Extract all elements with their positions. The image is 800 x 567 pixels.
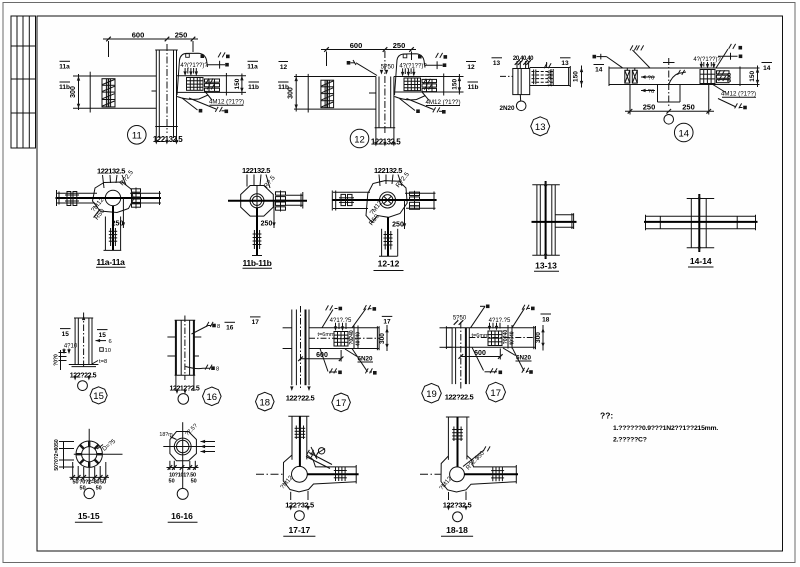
section 13-13 beam axis horizontal bbox=[532, 221, 577, 223]
detail 13 weld mark above beam bbox=[544, 63, 551, 68]
detail 11 end-plate curve outline bbox=[177, 53, 208, 99]
svg-text:250: 250 bbox=[112, 221, 124, 228]
detail 17 beam flange stubs left bbox=[283, 328, 292, 349]
detail 17 bubble octagon 17 bbox=[332, 393, 351, 412]
detail 11 section mark 11b left bbox=[59, 82, 70, 91]
svg-text:11b: 11b bbox=[59, 84, 70, 91]
svg-text:50?0?2=8050: 50?0?2=8050 bbox=[54, 439, 60, 470]
section 13-13 column flange caps bbox=[532, 185, 560, 255]
section 14-14 beam axis bbox=[644, 221, 758, 223]
svg-text:12-12: 12-12 bbox=[378, 259, 400, 269]
svg-text:150: 150 bbox=[234, 78, 241, 89]
svg-text:16-16: 16-16 bbox=[171, 511, 193, 521]
svg-text:1?300: 1?300 bbox=[548, 70, 554, 86]
svg-text:14: 14 bbox=[595, 67, 603, 74]
detail 15 section mark 15 left bbox=[60, 329, 71, 338]
svg-text:15: 15 bbox=[93, 391, 104, 402]
svg-text:8: 8 bbox=[217, 324, 220, 330]
detail 12 anchor text 4M12 (?1??) bbox=[422, 92, 461, 106]
section 11b-11b bolt on lower web bbox=[252, 230, 262, 256]
detail 14 centre line and level mark bbox=[668, 58, 670, 108]
svg-text:14: 14 bbox=[678, 128, 689, 139]
svg-text:t=6mm: t=6mm bbox=[472, 333, 489, 339]
section 17-17 end cap bbox=[355, 465, 357, 484]
svg-text:11a: 11a bbox=[59, 64, 70, 71]
detail 12 section mark 12 left bbox=[279, 62, 289, 71]
detail 13 section mark 13 right bbox=[560, 58, 571, 67]
detail 14 section mark 14 left bbox=[593, 54, 623, 74]
detail 13 leader to bubble bbox=[519, 95, 521, 101]
detail 12 section mark 11b left bbox=[278, 82, 289, 91]
section 11b-11b lower web bbox=[256, 208, 258, 256]
svg-text:12: 12 bbox=[280, 64, 288, 71]
svg-text:300: 300 bbox=[70, 86, 77, 98]
svg-text:??:: ??: bbox=[600, 411, 613, 421]
detail 14 bottom-right leader bbox=[718, 99, 743, 108]
detail 11 section mark 11b right bbox=[248, 82, 259, 91]
title strip table top-left bbox=[11, 16, 36, 148]
detail 11 top dimension line 600/250 bbox=[103, 39, 198, 57]
svg-text:122132.5: 122132.5 bbox=[242, 166, 270, 175]
svg-text:16: 16 bbox=[207, 392, 218, 403]
svg-text:17: 17 bbox=[336, 398, 347, 409]
detail 14 section mark 14 right bbox=[762, 63, 773, 72]
detail 19 dim 600 bbox=[461, 349, 501, 360]
detail 13 section mark 13 left bbox=[492, 58, 503, 67]
detail 15 weld arrow 6 right bbox=[96, 339, 112, 345]
detail 19 bubble octagon 19 bbox=[422, 383, 442, 403]
detail 11 beam depth dim 300 bbox=[73, 74, 90, 110]
detail 11 column web stub left bbox=[152, 90, 157, 92]
detail 14 anchor text 4M12 (?1??) bbox=[712, 84, 756, 98]
section 16-16 pipe circles bbox=[174, 438, 191, 455]
detail 19 text 6N20 bbox=[503, 348, 532, 361]
detail 11 bubble circle 11 bbox=[128, 126, 147, 145]
detail 17 bottom leaders bbox=[320, 349, 337, 373]
svg-text:13: 13 bbox=[535, 122, 546, 133]
svg-text:122132.5: 122132.5 bbox=[374, 166, 402, 175]
section 12-12 pipe circles bbox=[380, 192, 396, 208]
detail 12 right depth dim 150 bbox=[458, 74, 460, 95]
svg-text:8: 8 bbox=[216, 367, 219, 373]
section 11a-11a horizontal beam axis bbox=[56, 197, 162, 199]
detail 14 right bolt grid bbox=[700, 70, 715, 84]
detail 16 upper leader ?8 bbox=[192, 326, 212, 335]
svg-text:18-18: 18-18 bbox=[446, 525, 468, 535]
svg-text:11b-11b: 11b-11b bbox=[242, 258, 271, 268]
detail 12 stiffener hatch block bbox=[321, 80, 334, 108]
svg-text:11b: 11b bbox=[248, 84, 259, 91]
section 14-14 column caps bbox=[687, 199, 715, 248]
detail 16 bubble octagon 16 bbox=[203, 387, 222, 406]
svg-text:2.?????C?: 2.?????C? bbox=[613, 437, 647, 444]
detail 15 bubble octagon 15 bbox=[90, 387, 107, 404]
section 15-15 ring column with ribs bbox=[76, 441, 102, 467]
detail 12 column web stub left bbox=[369, 92, 376, 94]
detail 19 beam outline bbox=[446, 326, 535, 349]
svg-text:150: 150 bbox=[573, 71, 580, 82]
detail 19 beam flange stubs left bbox=[440, 328, 453, 348]
svg-text:122132.5: 122132.5 bbox=[97, 167, 125, 176]
section 14-14 column web axis bbox=[698, 194, 700, 252]
svg-text:250: 250 bbox=[643, 103, 656, 112]
section 11b-11b pipe circles bbox=[250, 194, 264, 208]
detail 16 column centre line bbox=[184, 316, 186, 381]
detail 16 lower leader ?8 bbox=[186, 367, 211, 369]
svg-text:50: 50 bbox=[169, 479, 175, 485]
section 17-17 pipe circle bbox=[292, 466, 308, 482]
section 12-12 lower web bbox=[387, 217, 389, 256]
svg-text:122?22.5: 122?22.5 bbox=[286, 393, 315, 402]
detail 11 bolt rows right of grid bbox=[205, 79, 220, 91]
svg-text:17-17: 17-17 bbox=[289, 525, 311, 535]
section 11a-11a lower beam web vertical bbox=[112, 206, 114, 251]
section 17-17 beam axis bbox=[307, 473, 359, 475]
svg-text:250: 250 bbox=[261, 221, 273, 228]
detail 17 beam outline bbox=[309, 326, 379, 350]
svg-text:300: 300 bbox=[379, 333, 386, 344]
detail 16 flange stubs bbox=[167, 337, 201, 356]
detail 11 top leader squares and weld marks bbox=[186, 54, 190, 58]
detail 12 column below beam bbox=[375, 77, 396, 128]
detail 15 base plate bbox=[69, 365, 99, 367]
section 16-16 octagon plate bbox=[170, 432, 197, 461]
svg-text:600: 600 bbox=[350, 41, 363, 50]
detail 17 top leaders bbox=[322, 309, 338, 328]
svg-text:300: 300 bbox=[288, 87, 295, 99]
svg-text:6: 6 bbox=[109, 339, 112, 345]
detail 11 left beam outline bbox=[80, 72, 156, 113]
detail 14 leader curve centre bbox=[669, 72, 686, 85]
svg-text:16: 16 bbox=[226, 325, 234, 332]
svg-text:17: 17 bbox=[252, 319, 260, 326]
svg-text:50: 50 bbox=[96, 486, 102, 492]
detail 12 right beam outline bbox=[394, 74, 464, 96]
detail 17 dim 600 bbox=[301, 350, 342, 362]
detail 17 column shaft bbox=[292, 310, 309, 386]
section 13-13 beam rectangle bbox=[555, 213, 573, 229]
detail 13 bolt shank dashed rows bbox=[532, 72, 555, 83]
section 17-17 bolt on vertical bbox=[295, 426, 306, 440]
section 18-18 leader arrow bbox=[463, 450, 484, 467]
svg-text:122?32.5: 122?32.5 bbox=[285, 501, 314, 510]
svg-text:17: 17 bbox=[383, 319, 391, 326]
detail 15 text t=8 with leader bbox=[92, 359, 107, 365]
section 17-17 vertical member bbox=[288, 416, 309, 460]
detail 13 centre line left bbox=[500, 75, 513, 77]
svg-text:5?50: 5?50 bbox=[453, 315, 467, 321]
svg-text:50: 50 bbox=[191, 479, 197, 485]
detail 12 bolt rows right of grid bbox=[422, 79, 437, 91]
section 11a-11a right bolt stack bbox=[132, 188, 141, 209]
section 11a-11a gusset plate outline bbox=[93, 182, 134, 218]
detail 13 column member bbox=[513, 69, 530, 95]
detail 12 bubble circle 12 bbox=[350, 129, 369, 148]
section 11b-11b octagon plate bbox=[241, 186, 274, 217]
section 18-18 bolt group on arm bbox=[491, 467, 504, 481]
section 14-14 beam outline bbox=[646, 215, 756, 230]
svg-text:13: 13 bbox=[561, 60, 569, 67]
section 11a-11a right beam flange lines bbox=[130, 191, 161, 205]
section 12-12 right beam flanges bbox=[405, 192, 436, 211]
detail 14 bubble octagon 14 bbox=[674, 123, 693, 142]
section 18-18 gusset plate outline bbox=[441, 456, 516, 493]
svg-text:11a: 11a bbox=[247, 64, 258, 71]
section 18-18 bolt on vertical bbox=[452, 427, 463, 442]
section 18-18 beam axis bbox=[464, 473, 518, 475]
svg-text:6N20: 6N20 bbox=[357, 355, 373, 362]
section 18-18 pipe circle bbox=[450, 467, 465, 482]
detail 16 column shaft bbox=[175, 320, 196, 375]
detail 13 depth dim 150 bbox=[581, 66, 583, 88]
detail 17 column centre line bbox=[300, 306, 302, 390]
svg-text:12: 12 bbox=[354, 134, 365, 145]
detail 15 column centre line bbox=[83, 313, 85, 369]
detail 11 bottom leader squares bbox=[182, 98, 225, 111]
detail 14 weld arrow ?6 upper bbox=[641, 75, 655, 81]
svg-text:?0?40: ?0?40 bbox=[503, 330, 509, 345]
detail 19 bottom leaders bbox=[472, 347, 497, 372]
svg-text:17: 17 bbox=[490, 388, 501, 399]
svg-text:300: 300 bbox=[535, 332, 542, 343]
detail 12 section mark 11b right bbox=[468, 82, 479, 91]
detail 18 bubble octagon 18 bbox=[256, 392, 275, 411]
svg-text:19: 19 bbox=[426, 389, 437, 400]
svg-text:50: 50 bbox=[100, 479, 106, 485]
detail 12 bolt grid block bbox=[404, 78, 421, 91]
svg-text:300: 300 bbox=[727, 73, 733, 82]
detail 11 bolt leader lines w arrows bbox=[185, 68, 196, 74]
detail 14 small circle below bbox=[664, 115, 674, 125]
svg-text:20,40,40: 20,40,40 bbox=[513, 56, 534, 62]
svg-text:4?1?.?5: 4?1?.?5 bbox=[330, 318, 352, 324]
section 16-16 small circle bbox=[182, 461, 184, 488]
section 11a-11a dim 250 bbox=[122, 198, 124, 228]
section 15-15 crosshair axes bbox=[74, 429, 123, 484]
detail 17 text 6N20 bbox=[345, 349, 373, 362]
detail 12 beam depth dim 300 bbox=[294, 74, 308, 112]
svg-text:4M12 (?1??): 4M12 (?1??) bbox=[721, 91, 756, 98]
detail 19 spacing dim ladders bbox=[508, 325, 512, 349]
section 12-12 left beam flanges bbox=[332, 191, 370, 211]
svg-text:250: 250 bbox=[392, 222, 404, 229]
detail 19 column shaft below beam bbox=[452, 328, 469, 384]
svg-text:?6: ?6 bbox=[648, 89, 654, 95]
detail 11 stiffener hatch block bbox=[102, 79, 115, 107]
section 11b-11b vertical axis upper bbox=[256, 186, 258, 216]
svg-text:122?32.5: 122?32.5 bbox=[443, 501, 472, 510]
svg-text:11b: 11b bbox=[468, 84, 479, 91]
section 11b-11b right beam flanges bbox=[286, 192, 303, 209]
svg-text:14-14: 14-14 bbox=[690, 256, 712, 266]
detail 19 top right leaders bbox=[512, 308, 530, 328]
section 12-12 dim 250 bbox=[404, 200, 406, 229]
detail 17 section mark 17 top right bbox=[382, 316, 393, 325]
detail 14 beam outline bbox=[609, 67, 740, 87]
detail 14 bolt rows beside grid bbox=[717, 71, 730, 83]
detail 12 leader square to column top bbox=[347, 61, 351, 65]
section 11b-11b right bolt stack bbox=[276, 191, 286, 212]
svg-text:1.??????0.9???1N2??1??215mm.: 1.??????0.9???1N2??1??215mm. bbox=[613, 425, 718, 432]
svg-text:t=8: t=8 bbox=[99, 359, 107, 365]
svg-text:250: 250 bbox=[393, 41, 406, 50]
svg-text:18: 18 bbox=[260, 397, 271, 408]
section 15-15 small circle bbox=[84, 488, 94, 498]
svg-text:15: 15 bbox=[62, 331, 70, 338]
detail 14 right depth dim 150 bbox=[740, 66, 760, 88]
detail 12 bottom leader squares bbox=[400, 99, 443, 112]
svg-text:t=6mm: t=6mm bbox=[318, 332, 335, 338]
section 13-13 column web axis bbox=[545, 181, 547, 259]
svg-text:11: 11 bbox=[132, 131, 142, 142]
section 12-12 gusset plate outline bbox=[366, 181, 407, 223]
svg-text:?6: ?6 bbox=[648, 76, 654, 82]
detail 11 column centre line bbox=[166, 44, 168, 133]
section 16-16 axes bbox=[163, 422, 211, 461]
detail 19 bolt grid on beam bbox=[488, 331, 502, 346]
detail 14 weld arrow ?6 lower bbox=[641, 89, 655, 95]
svg-text:4?10: 4?10 bbox=[64, 344, 78, 350]
svg-text:250: 250 bbox=[175, 31, 188, 40]
detail 13 small circle leader bbox=[516, 101, 526, 111]
section 16-16 bottom extension lines bbox=[167, 461, 199, 470]
section 17-17 small circle bbox=[295, 511, 305, 521]
detail 15 left anchor dims bbox=[59, 350, 67, 370]
detail 14 weld marks left with leader bbox=[630, 45, 637, 50]
section 16-16 weld arrows right bbox=[201, 440, 216, 443]
svg-text:15-15: 15-15 bbox=[78, 511, 100, 521]
svg-text:11a-11a: 11a-11a bbox=[96, 257, 125, 267]
detail 12 top dimension line 600/250 bbox=[321, 50, 416, 67]
section 12-12 right bolt stack bbox=[410, 191, 420, 210]
svg-text:5?50: 5?50 bbox=[381, 64, 395, 71]
section 11b-11b dim 250 bbox=[273, 201, 275, 228]
svg-text:15: 15 bbox=[99, 332, 107, 339]
section 12-12 bolt on lower web bbox=[384, 231, 393, 250]
detail 13 beam to right bbox=[530, 66, 571, 87]
detail 11 bolt grid block bbox=[187, 78, 204, 91]
section 18-18 small circle bbox=[453, 512, 463, 522]
detail 15 text ?10 right bbox=[100, 348, 111, 354]
svg-text:4?(?1??)?: 4?(?1??)? bbox=[180, 63, 208, 69]
section 15-15 bottom extension lines bbox=[70, 462, 110, 480]
detail 17 bolt grid on beam bbox=[334, 332, 348, 347]
svg-text:150: 150 bbox=[749, 70, 756, 81]
detail 11 section mark 11a left bbox=[59, 61, 70, 70]
section 15-15 left dim ladder bbox=[59, 441, 74, 469]
detail 15 column shaft bbox=[74, 318, 93, 365]
detail 11 section mark 11a right bbox=[247, 61, 258, 70]
svg-text:40?40: 40?40 bbox=[356, 332, 362, 346]
section 12-12 left bolt assembly bbox=[339, 194, 354, 205]
section 11a-11a left beam flange lines bbox=[57, 190, 98, 206]
svg-text:?0?2=80: ?0?2=80 bbox=[79, 479, 99, 485]
section 11a-11a bolt on lower web bbox=[109, 228, 117, 246]
detail 11 column (double flange lines, caps) bbox=[155, 50, 178, 127]
svg-text:18: 18 bbox=[542, 316, 550, 323]
svg-text:122132.5: 122132.5 bbox=[153, 135, 183, 144]
svg-text:250: 250 bbox=[682, 103, 695, 112]
detail 17 depth dim 300 bbox=[386, 325, 388, 351]
detail 14 column stub below beam bbox=[658, 85, 681, 103]
section 17-17 diagonal stiffener with bolt bbox=[306, 447, 332, 469]
svg-text:40?40: 40?40 bbox=[510, 331, 516, 345]
detail 14 bottom dim 250 250 bbox=[625, 85, 714, 115]
detail 11 column line ticks into text bbox=[156, 127, 176, 142]
detail 19 top leader square bbox=[471, 306, 486, 328]
svg-text:10: 10 bbox=[105, 348, 111, 354]
detail 19 column centre line bbox=[460, 322, 462, 390]
section 11a-11a left bolt assembly bbox=[65, 192, 79, 206]
svg-text:150: 150 bbox=[452, 78, 459, 89]
svg-text:13: 13 bbox=[493, 60, 501, 67]
detail 19 bubble octagon 17 bbox=[486, 382, 506, 402]
detail 12 column centre line bbox=[384, 51, 386, 134]
svg-text:4M12 (?1??): 4M12 (?1??) bbox=[209, 99, 244, 106]
svg-text:2N20: 2N20 bbox=[499, 105, 515, 112]
svg-text:?0?0: ?0?0 bbox=[54, 354, 60, 366]
detail 15 small circle below bbox=[78, 381, 88, 391]
svg-text:?0?40: ?0?40 bbox=[349, 330, 355, 345]
section 17-17 gusset plate outline bbox=[283, 455, 356, 492]
detail 15 section mark 15 right bbox=[97, 330, 108, 339]
detail 11 right depth dim 150 bbox=[241, 74, 243, 96]
detail 11 anchor text 4M12 (?1??) bbox=[205, 92, 244, 106]
detail 12 end-plate curve outline bbox=[395, 54, 426, 100]
detail 13 bubble octagon 13 bbox=[531, 117, 550, 136]
section 17-17 bolt group on arm bbox=[334, 467, 347, 481]
svg-text:14: 14 bbox=[763, 65, 771, 72]
svg-text:600: 600 bbox=[132, 31, 145, 40]
detail 12 top leader squares bbox=[403, 54, 407, 58]
detail 19 section mark 18 top right bbox=[541, 314, 552, 323]
section 11a-11a pipe column circle bbox=[105, 190, 120, 205]
svg-text:4M12 (?1??): 4M12 (?1??) bbox=[425, 99, 460, 106]
detail 14 top-right leader squares bbox=[716, 49, 738, 68]
svg-text:50: 50 bbox=[72, 479, 78, 485]
svg-text:122?22.5: 122?22.5 bbox=[445, 393, 474, 402]
detail 13 bolt plate verticals bbox=[534, 69, 554, 85]
detail 12 left beam outline bbox=[308, 74, 376, 113]
section 11b-11b horizontal axis bbox=[228, 200, 307, 202]
detail 14 left bolt pair bbox=[625, 68, 638, 83]
detail 11 right beam outline bbox=[177, 73, 247, 96]
svg-text:12: 12 bbox=[467, 64, 475, 71]
detail 16 section mark 16 right bbox=[225, 322, 236, 331]
detail 17 spacing dim ladders bbox=[354, 326, 358, 350]
section 18-18 vertical member bbox=[446, 417, 470, 460]
detail 12 section mark 12 right bbox=[466, 62, 476, 71]
section 12-12 horizontal axis bbox=[332, 199, 437, 201]
detail 16 small circle below bbox=[178, 394, 189, 405]
detail 19 depth dim 300 bbox=[542, 325, 544, 351]
detail 16 section mark 17 far right bbox=[250, 317, 261, 326]
svg-text:13-13: 13-13 bbox=[535, 261, 557, 271]
